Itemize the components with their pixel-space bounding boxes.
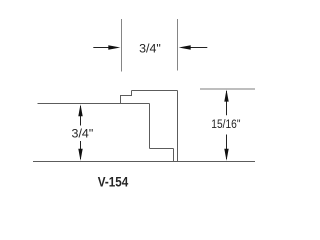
moulding top edge (tall wall) xyxy=(132,90,178,92)
moulding top ledge line xyxy=(38,103,150,105)
right dimension arrowhead up xyxy=(224,90,228,102)
dimension leader shaft, top left xyxy=(93,47,109,49)
arrowhead, top right (points left) xyxy=(179,45,191,50)
right dimension arrowhead down xyxy=(224,149,228,161)
moulding bottom line (also bottom extension) xyxy=(33,161,255,163)
left dimension line, lower segment xyxy=(80,141,82,159)
right dimension line, upper segment xyxy=(226,91,228,115)
right extension line (top, horizontal) xyxy=(200,88,255,90)
svg-text:3/4": 3/4" xyxy=(72,127,94,141)
dimension leader shaft, top right xyxy=(190,47,207,49)
extension line, left (above moulding step) xyxy=(121,19,123,72)
inner channel: vertical drop xyxy=(149,104,151,149)
moulding outer right wall xyxy=(177,91,179,162)
extension line, right (above outer wall) xyxy=(177,19,179,71)
left dimension line, upper segment xyxy=(80,106,82,126)
step riser and cap (lip of rabbet) xyxy=(121,91,132,104)
svg-text:V-154: V-154 xyxy=(98,175,129,190)
inner channel: right drop to bottom xyxy=(173,149,175,162)
left dimension arrowhead down xyxy=(78,149,82,161)
svg-text:3/4": 3/4" xyxy=(139,41,161,55)
svg-text:15/16": 15/16" xyxy=(211,117,240,131)
right dimension line, lower segment xyxy=(226,135,228,160)
left dimension arrowhead up xyxy=(78,104,82,116)
arrowhead, top left (points right) xyxy=(108,45,120,50)
inner channel: shelf xyxy=(150,148,174,150)
